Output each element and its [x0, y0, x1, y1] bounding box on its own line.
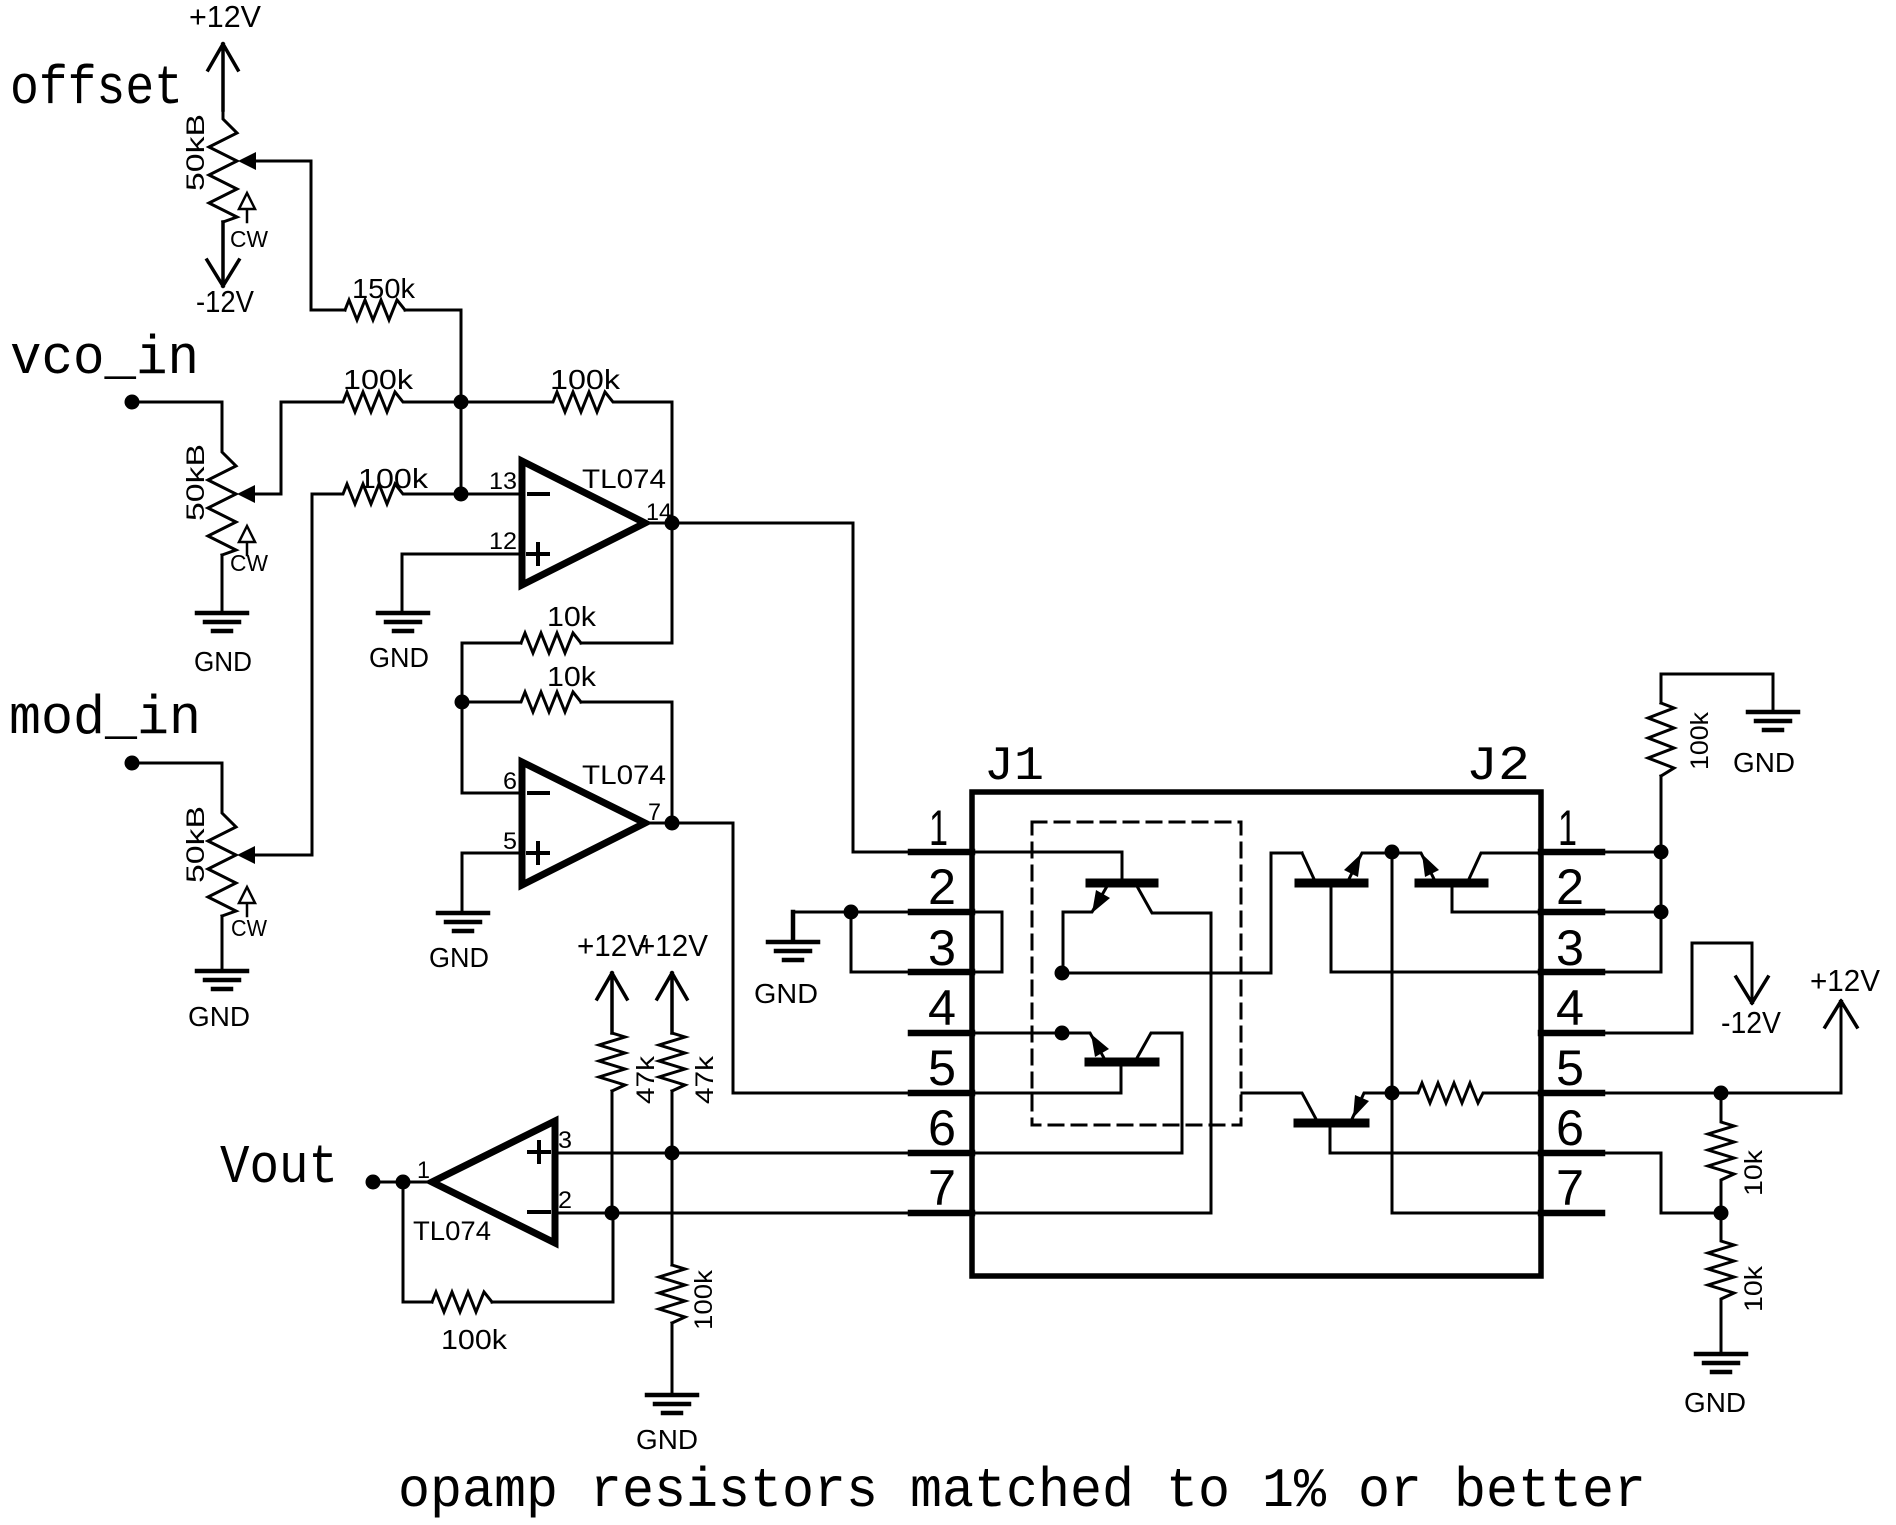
svg-text:J1: J1	[984, 740, 1044, 794]
svg-text:GND: GND	[429, 942, 489, 973]
wire op3 feedback up to minus node	[492, 1213, 613, 1302]
wire op1 output to J1 pin1	[645, 523, 911, 852]
wire J2 pin1 to bias node	[1602, 851, 1661, 854]
svg-text:7: 7	[1556, 1160, 1584, 1216]
svg-text:CW: CW	[231, 915, 267, 941]
wire summing node vertical	[460, 402, 463, 494]
pin stub J2-7	[1541, 1210, 1602, 1217]
dashed matched-pair box	[1032, 822, 1241, 1125]
wire op1 inverting input	[461, 493, 522, 496]
svg-text:TL074: TL074	[413, 1216, 491, 1246]
wire 10k b right to op2 output	[581, 702, 672, 823]
node J1 pin2 ground junction	[844, 905, 859, 920]
wire op3 feedback down	[403, 1182, 432, 1302]
wire J2 pin2 to bias node	[1602, 911, 1661, 914]
wire op2 inverting input	[462, 702, 522, 793]
power arrow +12V	[208, 44, 238, 110]
svg-text:vco_in: vco_in	[10, 327, 199, 390]
svg-text:6: 6	[503, 768, 517, 795]
arrow Q3 emitter	[1091, 1034, 1109, 1057]
pin stub J2-4	[1541, 1030, 1602, 1037]
node op2 output	[665, 816, 680, 831]
wire 47k b to op3 plus row	[671, 1091, 674, 1153]
svg-text:GND: GND	[1684, 1387, 1746, 1418]
pin stub J1-5	[911, 1090, 972, 1097]
svg-text:6: 6	[1556, 1100, 1584, 1156]
node J2 pin5 junction	[1714, 1086, 1729, 1101]
svg-text:10k: 10k	[1740, 1265, 1768, 1312]
node J2 pin2 junction	[1654, 905, 1669, 920]
node Q1 emitter junction	[1055, 966, 1070, 981]
pin stub J1-3	[911, 969, 972, 976]
wire feedback down to op1 output	[671, 402, 674, 523]
ground mod pot	[197, 971, 247, 989]
pin stub J1-6	[911, 1150, 972, 1157]
pin stub J2-6	[1541, 1150, 1602, 1157]
cw arrow vco	[239, 526, 255, 555]
resistor 100k mod input	[312, 484, 461, 504]
transistor Q4 base bar	[1419, 879, 1484, 888]
resistor 10k b	[462, 692, 581, 712]
node J2 pin1 junction	[1654, 845, 1669, 860]
ground 100k bias	[647, 1395, 697, 1413]
op-amp U1 TL074 (pins 13,12,14)	[522, 461, 645, 585]
resistor 47k a	[599, 1033, 625, 1091]
transistor Q1 base bar	[1090, 879, 1154, 888]
transistor Q1 emitter	[1063, 888, 1106, 973]
resistor 100k bias	[659, 1265, 685, 1323]
wire bias vertical and jog to J2 pin3	[1602, 776, 1661, 972]
wire J1 pin4 row to Q3 node	[972, 1032, 1062, 1035]
wire mod pot bottom to ground	[221, 916, 224, 971]
arrow Q4 emitter	[1422, 854, 1439, 877]
wire J2 pin5 to +12V arrow	[1602, 1003, 1841, 1093]
transistor Q5 emitter	[1352, 1093, 1392, 1119]
node 10k junction	[455, 695, 470, 710]
transistor Q1 collector	[1138, 888, 1211, 1213]
wire J2 pin4 to -12V arrow	[1602, 943, 1752, 1033]
svg-text:CW: CW	[230, 226, 268, 252]
resistor 150k	[345, 300, 405, 320]
svg-text:150k: 150k	[352, 273, 416, 304]
svg-text:1: 1	[929, 800, 948, 856]
arrow Q5 emitter	[1353, 1095, 1369, 1118]
svg-text:50kB: 50kB	[182, 444, 210, 521]
ground top right	[1748, 712, 1798, 730]
potentiometer mod 50kB	[208, 804, 236, 916]
svg-text:CW: CW	[230, 550, 268, 576]
wire Q1 emitter node to Q2 collector	[1062, 853, 1302, 973]
svg-text:100k: 100k	[1686, 711, 1714, 770]
wire J1 pins 2-3 tie loop	[793, 912, 1002, 972]
ground J1 pins 2-3	[768, 912, 818, 960]
svg-text:offset: offset	[10, 57, 183, 120]
wire Q3 base to J1 pin5 row	[972, 1062, 1121, 1093]
pin stub J1-4	[911, 1030, 972, 1037]
wire 10k a left	[462, 643, 521, 702]
wire Q5 base to J2 pin6 row	[1330, 1123, 1541, 1153]
pin stub J1-2	[911, 909, 972, 916]
transistor Q3 emitter	[1062, 1033, 1104, 1058]
power arrow -12V right	[1736, 977, 1768, 1003]
wire Q3 collector to J1 pin6 row	[972, 1152, 1182, 1155]
wire 150k to summing node	[405, 310, 461, 402]
svg-text:GND: GND	[636, 1424, 698, 1455]
svg-text:10k: 10k	[547, 661, 597, 692]
wire 10k a right to op1 output	[581, 523, 672, 643]
wire op2 output to J1 pin5	[645, 823, 911, 1093]
wire offset wiper to 150k	[253, 161, 345, 310]
transistor Q2 collector diagonal	[1302, 853, 1314, 879]
pin stub J2-3	[1541, 969, 1602, 976]
op-amp U3 TL074 (pins 3,2,1)	[432, 1121, 555, 1243]
svg-text:4: 4	[928, 980, 956, 1036]
svg-text:2: 2	[558, 1187, 572, 1214]
ground op1	[378, 613, 428, 631]
ground vco pot	[197, 613, 247, 631]
svg-text:mod_in: mod_in	[9, 687, 201, 750]
wire mod_in to pot	[132, 763, 222, 804]
svg-text:100k: 100k	[343, 364, 414, 395]
wire op2 noninverting input to ground	[462, 853, 522, 913]
svg-text:3: 3	[928, 920, 956, 976]
transistor Q4 emitter	[1392, 853, 1434, 879]
node divider junction	[1714, 1206, 1729, 1221]
svg-text:50kB: 50kB	[182, 114, 210, 191]
resistor 100k vco input	[281, 392, 461, 412]
resistor 100k bias top right	[1648, 703, 1674, 776]
wire vco_in to pot	[132, 402, 222, 443]
pin stub J1-7	[911, 1210, 972, 1217]
wire op3 plus node down to 100k	[671, 1153, 674, 1265]
svg-text:TL074: TL074	[582, 760, 666, 790]
wiper arrow vco pot	[237, 485, 255, 503]
wire Vout to op3	[373, 1181, 432, 1184]
svg-text:opamp resistors matched to 1%: opamp resistors matched to 1% or better	[398, 1459, 1646, 1523]
svg-text:+12V: +12V	[189, 0, 261, 34]
pin stub J2-1	[1541, 849, 1602, 856]
power arrow -12V	[207, 222, 239, 286]
wire Q2 base to J2 pin3 row	[1331, 883, 1541, 972]
transistor Q2 emitter	[1349, 853, 1392, 879]
transistor Q3 collector	[1137, 1033, 1182, 1153]
node op3 plus junction	[665, 1146, 680, 1161]
svg-text:Vout: Vout	[220, 1136, 338, 1199]
op-amp U2 TL074 (pins 6,5,7)	[522, 762, 645, 885]
node Q3 emitter junction	[1055, 1026, 1070, 1041]
wiper arrow offset pot	[238, 152, 256, 170]
connector box J1 J2 outline	[972, 792, 1541, 1276]
node vco_in terminal	[125, 395, 140, 410]
wire op1 noninverting input to ground	[402, 554, 522, 613]
resistor 10k lower right	[1708, 1213, 1734, 1354]
power arrow +12V b	[657, 973, 687, 1033]
svg-text:100k: 100k	[441, 1324, 508, 1355]
wire 100k top to ground	[1661, 674, 1773, 712]
wire vco pot bottom to ground	[221, 555, 224, 613]
power arrow +12V right	[1825, 1001, 1857, 1027]
svg-text:5: 5	[928, 1040, 956, 1096]
svg-text:50kB: 50kB	[182, 806, 210, 883]
wiper arrow mod pot	[237, 846, 255, 864]
svg-text:GND: GND	[188, 1001, 250, 1032]
power arrow +12V a	[597, 973, 627, 1033]
transistor Q5 base bar	[1298, 1119, 1365, 1128]
label op3 minus	[529, 1210, 549, 1214]
node middle pair emitters	[1385, 845, 1400, 860]
svg-text:7: 7	[928, 1160, 956, 1216]
svg-text:10k: 10k	[547, 601, 597, 632]
svg-text:GND: GND	[194, 646, 252, 677]
wire middle emitter node down	[1392, 852, 1541, 1213]
resistor 47k b	[659, 1033, 685, 1091]
node op1 output	[665, 516, 680, 531]
svg-text:GND: GND	[369, 642, 429, 673]
wire J2 pin6 jog to divider node	[1602, 1153, 1721, 1213]
resistor internal emitter	[1392, 1083, 1541, 1103]
svg-text:100k: 100k	[690, 1269, 718, 1330]
cw arrow mod	[239, 887, 255, 916]
label op2 minus	[529, 791, 548, 795]
svg-text:47k: 47k	[691, 1055, 719, 1104]
wire J1 pin1 row to Q1 base	[972, 852, 1122, 879]
label op3 plus	[529, 1142, 549, 1162]
ground op2	[438, 913, 488, 931]
node summing junction lower	[454, 487, 469, 502]
potentiometer offset 50kB	[209, 110, 237, 222]
svg-text:100k: 100k	[550, 364, 621, 395]
svg-text:4: 4	[1556, 980, 1584, 1036]
arrow Q1 emitter	[1092, 890, 1110, 913]
transistor Q2 base bar	[1299, 879, 1364, 888]
svg-text:1: 1	[417, 1157, 430, 1184]
svg-text:J2: J2	[1466, 740, 1530, 794]
svg-text:10k: 10k	[1740, 1149, 1768, 1196]
pin stub J2-5	[1541, 1090, 1602, 1097]
node Vout terminal	[366, 1175, 381, 1190]
wire Q1 collector to J1 pin7 row	[972, 1212, 1211, 1215]
svg-text:2: 2	[1556, 859, 1584, 915]
svg-text:100k: 100k	[358, 463, 429, 494]
svg-text:GND: GND	[1733, 747, 1795, 778]
pin stub J2-2	[1541, 909, 1602, 916]
svg-text:GND: GND	[754, 978, 818, 1009]
svg-text:12: 12	[489, 528, 517, 555]
svg-text:1: 1	[1558, 800, 1577, 856]
wire 47k a to op3 minus row	[611, 1091, 614, 1213]
node summing junction upper	[454, 395, 469, 410]
node mod_in terminal	[125, 756, 140, 771]
node Q5 emitter junction	[1385, 1086, 1400, 1101]
svg-text:47k: 47k	[632, 1055, 660, 1104]
svg-text:+12V: +12V	[638, 928, 708, 963]
transistor Q4 collector	[1469, 853, 1541, 879]
wire 100k bias to ground	[671, 1323, 674, 1395]
wire Q4 base to J2 pin2 row	[1452, 883, 1541, 912]
wire op3 minus row to J1 pin7	[555, 1212, 911, 1215]
label op2 plus	[528, 843, 548, 863]
node op3 output junction	[396, 1175, 411, 1190]
label op1 plus	[528, 544, 548, 564]
svg-text:3: 3	[1556, 920, 1584, 976]
resistor 10k a	[521, 633, 581, 653]
label op1 minus	[529, 492, 548, 496]
transistor Q3 base bar	[1089, 1058, 1155, 1067]
svg-text:2: 2	[928, 859, 956, 915]
arrow Q2 emitter	[1344, 854, 1361, 877]
wire vco wiper riser	[252, 402, 281, 494]
svg-text:3: 3	[558, 1127, 572, 1154]
pin stub J1-1	[911, 849, 972, 856]
cw arrow offset	[239, 193, 255, 222]
node op3 minus junction	[605, 1206, 620, 1221]
resistor 100k op3 feedback	[432, 1292, 492, 1312]
resistor 100k feedback op1	[461, 392, 672, 412]
svg-text:+12V: +12V	[577, 928, 647, 963]
wire op3 plus row to J1 pin6	[555, 1152, 911, 1155]
svg-text:+12V: +12V	[1810, 963, 1880, 998]
svg-text:5: 5	[1556, 1040, 1584, 1096]
wire mod wiper riser	[252, 494, 312, 855]
svg-text:-12V: -12V	[196, 284, 254, 319]
svg-text:6: 6	[928, 1100, 956, 1156]
ground bottom right	[1696, 1354, 1746, 1372]
potentiometer vco 50kB	[208, 443, 236, 555]
svg-text:5: 5	[503, 828, 517, 855]
svg-text:13: 13	[489, 468, 517, 495]
svg-text:TL074: TL074	[582, 464, 666, 494]
resistor 10k upper right	[1708, 1093, 1734, 1213]
svg-text:-12V: -12V	[1721, 1005, 1781, 1040]
transistor Q5 collector	[1242, 1093, 1316, 1119]
